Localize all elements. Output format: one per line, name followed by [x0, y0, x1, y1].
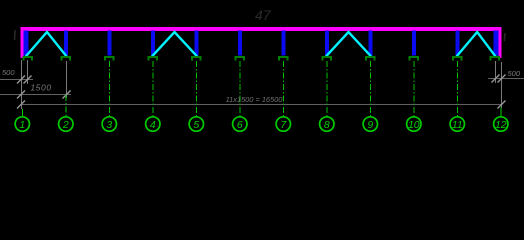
- svg-text:10: 10: [408, 119, 420, 131]
- svg-text:12: 12: [495, 119, 507, 131]
- svg-text:500: 500: [2, 68, 15, 77]
- svg-text:1: 1: [19, 119, 25, 131]
- svg-text:3: 3: [106, 119, 112, 131]
- svg-text:9: 9: [367, 119, 373, 131]
- svg-text:47: 47: [255, 7, 272, 23]
- svg-text:8: 8: [324, 119, 330, 131]
- svg-text:11x1500 = 16500: 11x1500 = 16500: [226, 95, 284, 104]
- svg-text:500: 500: [508, 69, 521, 78]
- svg-text:2: 2: [62, 119, 69, 131]
- svg-text:4: 4: [150, 119, 156, 131]
- svg-text:1500: 1500: [30, 83, 51, 93]
- svg-text:6: 6: [237, 119, 243, 131]
- svg-text:5: 5: [193, 119, 199, 131]
- svg-text:11: 11: [452, 119, 463, 131]
